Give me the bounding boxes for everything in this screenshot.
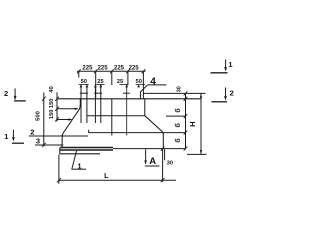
svg-text:2: 2 — [30, 128, 34, 137]
right slope — [145, 116, 164, 133]
H bottom ext — [187, 153, 207, 155]
svg-text:б: б — [174, 138, 182, 143]
svg-text:150: 150 — [49, 109, 55, 119]
tick marks top chain — [77, 69, 145, 73]
H dim line — [200, 93, 202, 154]
svg-text:30: 30 — [176, 86, 182, 92]
top plate item 4 top edge — [143, 92, 206, 94]
anchor bolt pair left 50 — [80, 84, 82, 123]
long mid line — [89, 132, 164, 134]
shelf ext to chain — [166, 115, 186, 117]
svg-text:2: 2 — [4, 89, 8, 98]
svg-text:б: б — [174, 108, 182, 113]
right block edge — [144, 99, 146, 116]
section marker 1 right — [228, 60, 232, 69]
body bottom left section — [60, 153, 101, 155]
anchor bolt right — [126, 84, 128, 135]
svg-text:2: 2 — [230, 88, 234, 97]
b chain texts — [176, 86, 182, 92]
svg-text:А: А — [149, 156, 156, 167]
bolt bridges left — [80, 92, 88, 94]
anchor bolt pair left 25 — [94, 84, 96, 123]
svg-text:225: 225 — [98, 66, 109, 72]
section marker 2 right — [230, 88, 234, 97]
left inner dim chain — [56, 92, 58, 121]
label 2 leader — [29, 135, 88, 137]
slab left step — [59, 148, 61, 154]
left chain texts — [49, 86, 55, 119]
extension verticals below top chain — [78, 71, 80, 77]
label 3 callout — [36, 137, 40, 146]
plate left edge / leader vertical — [139, 92, 141, 99]
svg-text:30: 30 — [167, 160, 173, 166]
main top surface — [57, 98, 201, 100]
mini dim texts 50 25 25 50 — [81, 79, 142, 85]
label 2 callout — [30, 128, 34, 137]
centre divider — [111, 99, 113, 136]
right b chain — [185, 93, 187, 149]
mid line ext to chain — [163, 132, 185, 134]
pedestal left edge — [60, 99, 81, 154]
L dim line — [59, 179, 176, 181]
svg-text:1: 1 — [4, 132, 8, 141]
svg-text:225: 225 — [114, 66, 125, 72]
slab hatched double line — [60, 148, 113, 151]
label 4 with leader — [150, 76, 156, 87]
section marker 2 left — [4, 89, 8, 98]
dimension chain top 225x4 line — [77, 70, 146, 72]
right lower edge — [162, 133, 164, 149]
view mark A — [145, 149, 147, 163]
svg-text:4: 4 — [150, 76, 156, 87]
left slope with fillet — [62, 105, 80, 137]
label 1 callout bottom — [77, 161, 81, 170]
svg-text:225: 225 — [82, 66, 93, 72]
section marker 1 left — [4, 132, 8, 141]
top chain texts 225 — [82, 66, 139, 72]
svg-text:б: б — [174, 122, 182, 127]
left chain ext arrows — [57, 108, 78, 110]
slab single line right — [113, 148, 186, 150]
svg-text:40: 40 — [49, 86, 55, 92]
svg-text:225: 225 — [129, 66, 140, 72]
svg-text:500: 500 — [35, 111, 41, 121]
mini dim lines — [79, 83, 146, 85]
mid line left end stub — [88, 130, 90, 133]
bolt bridge right — [123, 92, 130, 94]
svg-text:3: 3 — [36, 137, 40, 146]
svg-text:150: 150 — [49, 98, 55, 108]
svg-text:Н: Н — [188, 121, 197, 126]
30 vertical dim bottom right — [162, 149, 164, 182]
svg-text:L: L — [104, 171, 109, 180]
svg-text:1: 1 — [228, 60, 232, 69]
overall 500 dim line — [43, 93, 45, 147]
left lower edge — [61, 135, 63, 148]
500 bottom ext line merged with label 3 leader — [35, 144, 63, 146]
L left ext — [58, 155, 60, 184]
socket shelf — [87, 115, 145, 117]
